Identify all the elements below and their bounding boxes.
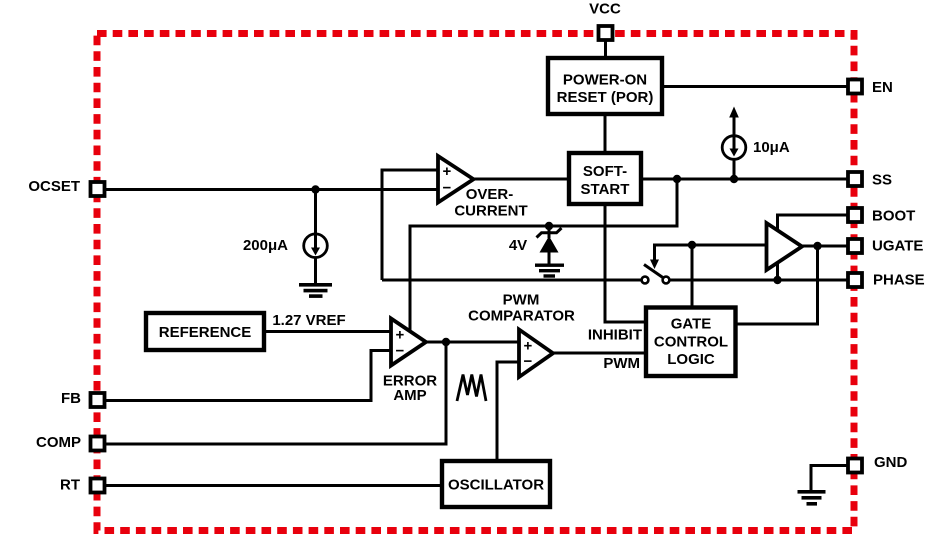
- box SOFT-START: [569, 153, 641, 204]
- node junction SS line / 10uA source: [730, 175, 738, 183]
- wire driver output to UGATE pin: [801, 245, 848, 248]
- wire COMP pin to error amp output: [105, 342, 446, 444]
- wire RT pin to oscillator: [105, 484, 441, 487]
- svg-text:CURRENT: CURRENT: [454, 203, 527, 220]
- wire oscillator to PWM comparator minus input: [497, 362, 520, 460]
- svg-text:SOFT-: SOFT-: [583, 163, 627, 180]
- current source I2 10uA circle: [722, 136, 746, 160]
- switch S1: [642, 277, 649, 284]
- wire 200uA to ground: [314, 258, 317, 285]
- wire driver return to PHASE line: [776, 262, 779, 280]
- node junction error amp output / COMP: [442, 338, 450, 346]
- wire VCC pin to POR box: [604, 40, 607, 57]
- svg-text:LOGIC: LOGIC: [667, 351, 715, 368]
- wire 4V clamp net from SS line to error amp: [410, 179, 677, 331]
- svg-text:GND: GND: [874, 454, 908, 471]
- ground under 200uA source: [299, 283, 332, 287]
- svg-text:RT: RT: [60, 477, 80, 494]
- wire POR to EN pin: [663, 85, 848, 88]
- svg-text:COMP: COMP: [36, 434, 81, 451]
- wire SOFT-START to SS pin: [642, 178, 848, 181]
- svg-text:INHIBIT: INHIBIT: [588, 327, 642, 344]
- svg-text:OVER-: OVER-: [466, 186, 514, 203]
- wire gate control logic to driver input: [691, 245, 694, 307]
- wire error amp output to PWM comparator plus input: [425, 341, 520, 344]
- wire REFERENCE to error amp plus input: [264, 330, 392, 333]
- pin UGATE: [848, 239, 862, 253]
- node junction driver input / gate logic: [688, 241, 696, 249]
- svg-text:BOOT: BOOT: [872, 208, 915, 225]
- sawtooth waveform symbol: [457, 375, 486, 402]
- wire 10uA to SS line: [733, 159, 736, 179]
- box POWER-ON RESET (POR): [548, 58, 662, 114]
- svg-text:VCC: VCC: [589, 1, 621, 18]
- pin SS: [848, 172, 862, 186]
- wire SOFT-START inhibit to gate control logic: [605, 205, 646, 322]
- wire POR to SOFT-START: [604, 115, 607, 152]
- svg-text:FB: FB: [61, 390, 81, 407]
- box GATE CONTROL LOGIC: [646, 308, 736, 377]
- svg-text:OSCILLATOR: OSCILLATOR: [448, 477, 544, 494]
- svg-text:−: −: [524, 353, 533, 370]
- svg-text:−: −: [396, 343, 405, 360]
- wire GND pin to ground: [811, 466, 848, 492]
- current source I2 inner arrow: [733, 136, 736, 149]
- op-amp PWM comparator: [519, 330, 553, 378]
- svg-text:EN: EN: [872, 79, 893, 96]
- wire OCSET pin to over-current inverting input: [105, 188, 439, 191]
- svg-text:200μA: 200μA: [243, 237, 288, 254]
- op-amp error amp: [391, 319, 426, 366]
- op-amp over-current comparator: [438, 156, 474, 203]
- pin GND: [848, 459, 862, 473]
- node junction UGATE / gate logic feedback: [813, 242, 821, 250]
- svg-text:+: +: [524, 338, 533, 355]
- svg-text:POWER-ON: POWER-ON: [563, 72, 647, 89]
- wire over-current plus input to phase sense: [382, 170, 439, 280]
- svg-text:10μA: 10μA: [753, 139, 790, 156]
- zener diode D1 4V: [548, 226, 551, 238]
- svg-text:+: +: [443, 163, 452, 180]
- wire UGATE feedback to gate control logic: [736, 246, 818, 324]
- svg-text:PWM: PWM: [603, 355, 640, 372]
- svg-text:SS: SS: [872, 172, 892, 189]
- svg-text:REFERENCE: REFERENCE: [159, 324, 252, 341]
- current source I2 up arrow: [733, 116, 736, 136]
- wire phase sense line to switch: [382, 279, 643, 282]
- svg-text:+: +: [396, 327, 405, 344]
- svg-text:OCSET: OCSET: [28, 178, 80, 195]
- wire driver input line: [655, 244, 768, 247]
- svg-text:PHASE: PHASE: [873, 272, 925, 289]
- ground symbol at GND pin: [798, 490, 826, 494]
- svg-text:PWM: PWM: [503, 292, 540, 309]
- svg-text:−: −: [443, 180, 452, 197]
- node junction OCSET / 200uA: [311, 185, 319, 193]
- switch control arrowhead: [650, 260, 659, 270]
- IC boundary dashed border: [97, 34, 854, 531]
- svg-text:4V: 4V: [509, 237, 527, 254]
- pin FB: [91, 393, 105, 407]
- svg-text:AMP: AMP: [393, 387, 426, 404]
- wire PWM comparator output to gate control logic: [552, 352, 646, 355]
- box REFERENCE: [146, 313, 264, 350]
- current source I1 200uA circle: [304, 234, 328, 258]
- svg-text:UGATE: UGATE: [872, 238, 923, 255]
- node junction PHASE line / driver return: [773, 276, 781, 284]
- ground under zener: [535, 264, 564, 267]
- pin OCSET: [91, 182, 105, 196]
- pin PHASE: [848, 273, 862, 287]
- wire over-current output to SOFT-START: [472, 178, 568, 181]
- wire FB pin to error amp minus input: [105, 351, 392, 401]
- current source I1 arrow: [314, 190, 317, 249]
- wire switch to PHASE pin: [668, 279, 848, 282]
- wire BOOT pin to driver: [778, 215, 849, 231]
- wire switch control arrow stem: [653, 244, 656, 261]
- svg-text:CONTROL: CONTROL: [654, 333, 728, 350]
- pin COMP: [91, 437, 105, 451]
- svg-text:RESET (POR): RESET (POR): [557, 89, 654, 106]
- node junction 4V line / zener: [545, 222, 553, 230]
- pin BOOT: [848, 208, 862, 222]
- svg-text:1.27 VREF: 1.27 VREF: [272, 312, 345, 329]
- svg-text:START: START: [581, 181, 630, 198]
- node junction SS line / 4V net: [673, 175, 681, 183]
- box OSCILLATOR: [442, 461, 550, 507]
- pin EN: [848, 80, 862, 94]
- pin RT: [91, 479, 105, 493]
- pin VCC: [599, 26, 613, 40]
- driver buffer U2: [767, 223, 803, 270]
- svg-text:COMPARATOR: COMPARATOR: [468, 308, 575, 325]
- svg-text:GATE: GATE: [671, 316, 712, 333]
